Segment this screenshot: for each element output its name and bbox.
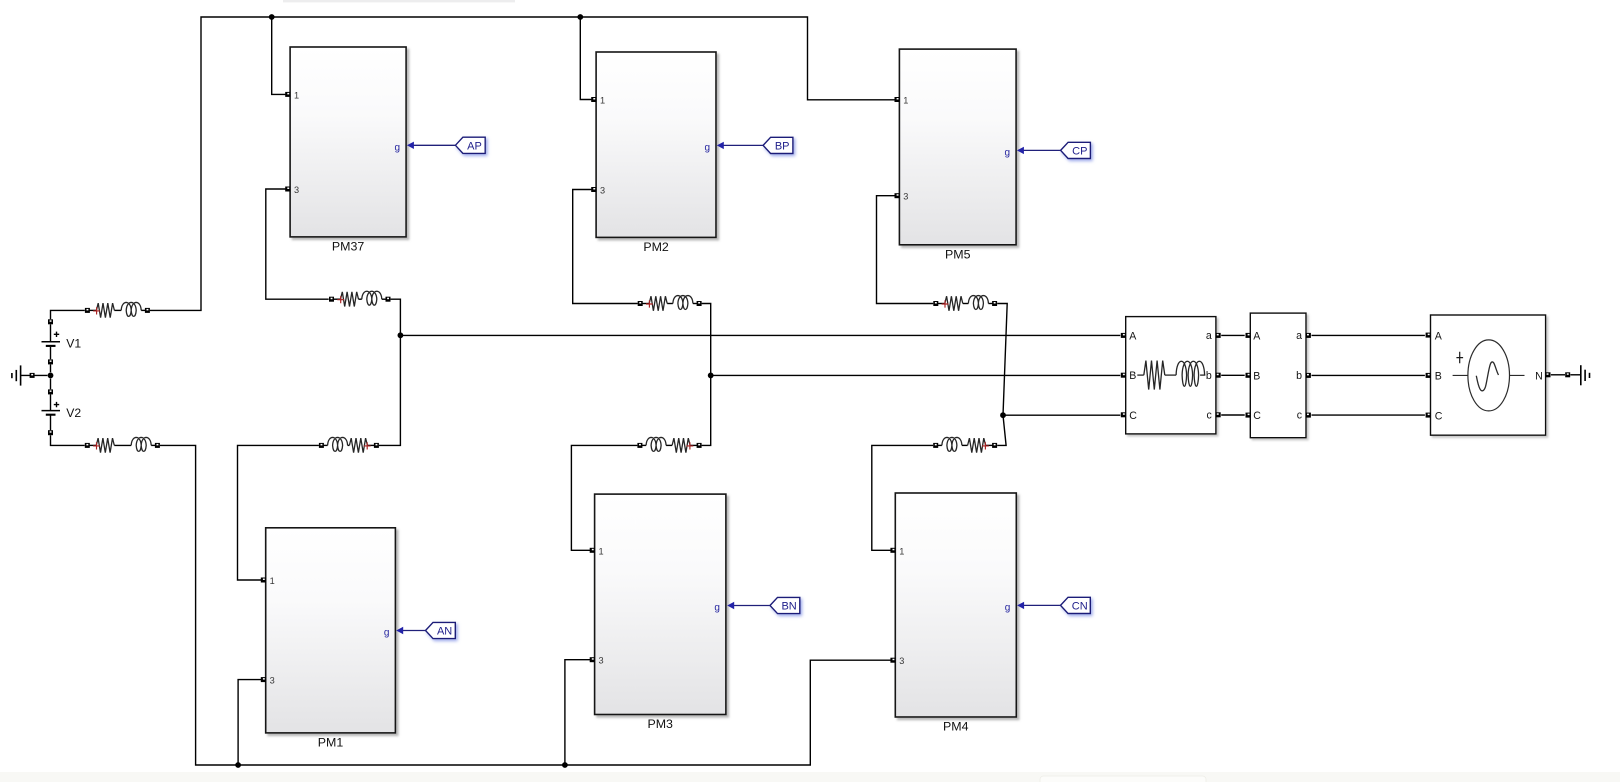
ground (left) (12, 365, 21, 385)
tag BN (770, 597, 800, 613)
svg-text:b: b (1206, 370, 1212, 382)
svg-text:b: b (1296, 370, 1302, 382)
three-phase series RLC branch block (1126, 317, 1216, 434)
port (PM5 phase C upper right) (992, 301, 997, 306)
port (PM3 phase B lower left) (637, 443, 642, 448)
wire: measurement block to source block (row y=335.4) (1312, 334, 1425, 336)
port B of source block (1426, 373, 1431, 378)
port A of measurement block (1246, 333, 1251, 338)
svg-text:g: g (384, 628, 390, 639)
DC voltage source V2 (42, 402, 82, 420)
wire: phase B bus to RLC block port B (711, 374, 1121, 376)
series RL branch (PM37 phase A upper) (332, 291, 389, 306)
tag AP arrow (407, 142, 456, 149)
svg-text:A: A (1253, 330, 1261, 342)
port b of measurement block (1306, 373, 1311, 378)
port (left ground) (30, 373, 35, 378)
wire: PM3 RL input to PM3 port 1 (571, 445, 637, 550)
wire: top bus to PM37 port 1 (272, 17, 286, 94)
port 3 of PM37 (285, 187, 290, 192)
junction at DC link midpoint (48, 373, 54, 379)
tag AN arrow (396, 627, 425, 634)
tag CP arrow (1017, 147, 1061, 154)
subsystem PM1 (266, 528, 396, 750)
port (V1 +) (48, 319, 53, 324)
port N of source block (1546, 372, 1551, 377)
svg-text:3: 3 (903, 192, 908, 202)
port a of RLC block (1216, 333, 1221, 338)
port (PM2 phase B upper right) (697, 301, 702, 306)
subsystem PM4 (895, 493, 1016, 734)
svg-text:3: 3 (599, 656, 604, 666)
wire: PM37 port 3 to its RL branch (266, 189, 329, 299)
series RL branch (PM2 phase B upper) (640, 296, 699, 311)
wire: midpoint down to V2 plus port (50, 379, 52, 390)
series RL branch (PM4 phase C lower) (936, 437, 995, 452)
svg-text:a: a (1296, 330, 1302, 342)
wire: source N to ground port (1551, 374, 1565, 376)
series RL branch (PM3 phase B lower) (640, 437, 699, 452)
tag AP (455, 137, 485, 153)
svg-text:PM5: PM5 (945, 247, 971, 261)
port (PM1 phase A lower right) (374, 443, 379, 448)
svg-text:PM1: PM1 (318, 736, 344, 750)
junction on bottom bus (PM3) (562, 762, 568, 768)
svg-text:c: c (1207, 410, 1213, 422)
svg-text:BP: BP (775, 140, 790, 152)
port 3 of PM1 (261, 677, 266, 682)
port 1 of PM3 (590, 548, 595, 553)
port (PM5 phase C upper left) (933, 301, 938, 306)
svg-text:CP: CP (1072, 145, 1087, 157)
svg-text:1: 1 (270, 576, 275, 586)
svg-text:V1: V1 (66, 337, 81, 351)
port (V2 feed left) (85, 443, 90, 448)
svg-text:3: 3 (270, 676, 275, 686)
port (PM2 phase B upper left) (638, 301, 643, 306)
port (V1 feed right) (145, 308, 150, 313)
svg-text:3: 3 (600, 186, 605, 196)
svg-text:a: a (1206, 330, 1212, 342)
svg-text:B: B (1435, 371, 1442, 383)
port b of RLC block (1216, 373, 1221, 378)
svg-text:AP: AP (467, 140, 482, 152)
svg-text:PM4: PM4 (943, 720, 969, 734)
series RL branch (V2 feed) (87, 437, 157, 452)
wire: RLC block to measurement block (row y=335.4) (1221, 334, 1245, 336)
wire: PM2 port 3 to its RL branch (573, 190, 638, 304)
port (V2 +) (48, 389, 53, 394)
svg-text:PM37: PM37 (332, 240, 364, 254)
wire: phase-B riser linking PM2 and PM3 RL branches (702, 304, 711, 446)
tag CP (1061, 142, 1091, 158)
wire: left ground to DC midpoint (21, 374, 48, 376)
wire: V1 plus port lead (50, 324, 52, 341)
wire: ground port to right ground symbol (1570, 374, 1580, 376)
port C of measurement block (1246, 413, 1251, 418)
svg-text:g: g (714, 603, 720, 614)
wire: phase A bus to RLC block port A (400, 334, 1120, 336)
port 1 of PM4 (890, 548, 895, 553)
svg-text:g: g (1005, 602, 1011, 613)
wire: bottom bus to PM3 port 3 (565, 660, 591, 765)
wire: PM1 RL input to PM1 port 1 (238, 445, 319, 580)
wire: bottom bus to PM1 port 3 (238, 680, 262, 765)
svg-text:PM2: PM2 (643, 240, 669, 254)
svg-text:C: C (1253, 410, 1261, 422)
wire: V2 RL output along bottom bus to PM4 port 3 (160, 445, 892, 765)
svg-text:AN: AN (437, 626, 452, 638)
port B of RLC block (1121, 373, 1126, 378)
svg-text:PM3: PM3 (647, 717, 673, 731)
port (V1 -) (48, 359, 53, 364)
junction on bottom bus (PM1) (235, 762, 241, 768)
svg-text:CN: CN (1072, 600, 1088, 612)
junction on top bus (PM2 drop) (577, 14, 583, 20)
svg-text:B: B (1129, 370, 1136, 382)
series RL branch (PM5 phase C upper) (936, 296, 995, 311)
wire: top bus to PM2 port 1 (580, 17, 592, 100)
port c of measurement block (1306, 413, 1311, 418)
port 3 of PM3 (590, 657, 595, 662)
port a of measurement block (1306, 333, 1311, 338)
svg-text:C: C (1129, 410, 1137, 422)
wire: midpoint up to V1 minus port (50, 365, 52, 373)
wire: V1 plus to RL branch (51, 310, 85, 319)
port (V1 feed left) (85, 308, 90, 313)
svg-text:A: A (1129, 330, 1137, 342)
subsystem PM5 (899, 49, 1016, 261)
port 3 of PM2 (591, 187, 596, 192)
port B of measurement block (1246, 373, 1251, 378)
wire: phase-C riser linking PM5 and PM4 RL branches (997, 304, 1007, 446)
svg-text:g: g (1005, 147, 1011, 158)
wire: V1 RL output to top bus feeding PM5 port 1 (150, 17, 896, 310)
svg-text:1: 1 (294, 90, 299, 100)
wire: V2 upper plate lead (50, 394, 52, 410)
svg-text:A: A (1435, 331, 1443, 343)
tag BP arrow (717, 142, 763, 149)
port (right ground) (1565, 372, 1570, 377)
svg-text:3: 3 (294, 185, 299, 195)
tag AN (426, 622, 456, 638)
junction on top bus (PM37 drop) (269, 14, 275, 20)
svg-text:1: 1 (903, 96, 908, 106)
port (V2 feed right) (155, 443, 160, 448)
port 1 of PM5 (895, 97, 900, 102)
ground (right) (1581, 365, 1590, 385)
port C of source block (1426, 413, 1431, 418)
port 1 of PM1 (261, 578, 266, 583)
wire: PM4 RL input to PM4 port 1 (872, 445, 933, 550)
svg-text:c: c (1297, 410, 1303, 422)
port (PM4 phase C lower left) (933, 443, 938, 448)
wire: measurement block to source block (row y=375.4) (1312, 374, 1425, 376)
port (V2 -) (48, 430, 53, 435)
DC voltage source V1 (42, 332, 82, 351)
wire: V2 minus to RL branch (51, 435, 85, 445)
port 1 of PM2 (591, 97, 596, 102)
wire: V1 lower plate lead (50, 347, 52, 359)
port (PM37 phase A upper right) (386, 297, 391, 302)
tag CN arrow (1017, 602, 1060, 609)
wire: PM5 port 3 to its RL branch (877, 196, 934, 304)
wire: phase C bus to RLC block port C (1003, 414, 1120, 416)
port 1 of PM37 (285, 92, 290, 97)
wire: RLC block to measurement block (row y=415.0) (1221, 414, 1245, 416)
wire: RLC block to measurement block (row y=375.3) (1221, 374, 1245, 376)
port (PM1 phase A lower left) (319, 443, 324, 448)
svg-text:N: N (1535, 371, 1543, 383)
svg-text:C: C (1435, 410, 1443, 422)
svg-text:g: g (704, 142, 710, 153)
subsystem PM3 (595, 494, 726, 731)
svg-text:1: 1 (899, 546, 904, 556)
tag BN arrow (727, 602, 770, 609)
port c of RLC block (1216, 412, 1221, 417)
svg-text:V2: V2 (66, 406, 81, 420)
junction phase C (1000, 412, 1006, 418)
svg-text:3: 3 (899, 656, 904, 666)
junction phase B (708, 373, 714, 379)
tag BP (763, 137, 793, 153)
port 3 of PM4 (890, 658, 895, 663)
subsystem PM37 (290, 47, 406, 254)
three-phase programmable source block (1431, 315, 1546, 435)
svg-text:BN: BN (781, 601, 796, 613)
port (PM37 phase A upper left) (329, 297, 334, 302)
series RL branch (PM1 phase A lower) (321, 437, 376, 452)
port (PM3 phase B lower right) (697, 443, 702, 448)
tag CN (1061, 597, 1091, 613)
port 3 of PM5 (895, 193, 900, 198)
wire: phase-A riser linking PM37 and PM1 RL branches (379, 299, 401, 445)
RL graphic inside RLC block (1137, 361, 1205, 390)
svg-text:B: B (1253, 370, 1260, 382)
svg-text:1: 1 (600, 96, 605, 106)
three-phase measurement block (1250, 313, 1306, 438)
wire: measurement block to source block (row y=415.1) (1312, 414, 1425, 416)
series RL branch (V1 feed) (87, 302, 147, 317)
port A of source block (1426, 333, 1431, 338)
port A of RLC block (1121, 333, 1126, 338)
source symbol (ellipse + sine) (1453, 340, 1525, 411)
svg-text:g: g (395, 142, 401, 153)
port C of RLC block (1121, 412, 1126, 417)
wire: V2 lower plate lead (50, 414, 52, 430)
port (PM4 phase C lower right) (992, 443, 997, 448)
subsystem PM2 (596, 52, 716, 254)
junction phase A (398, 332, 404, 338)
svg-text:1: 1 (599, 546, 604, 556)
